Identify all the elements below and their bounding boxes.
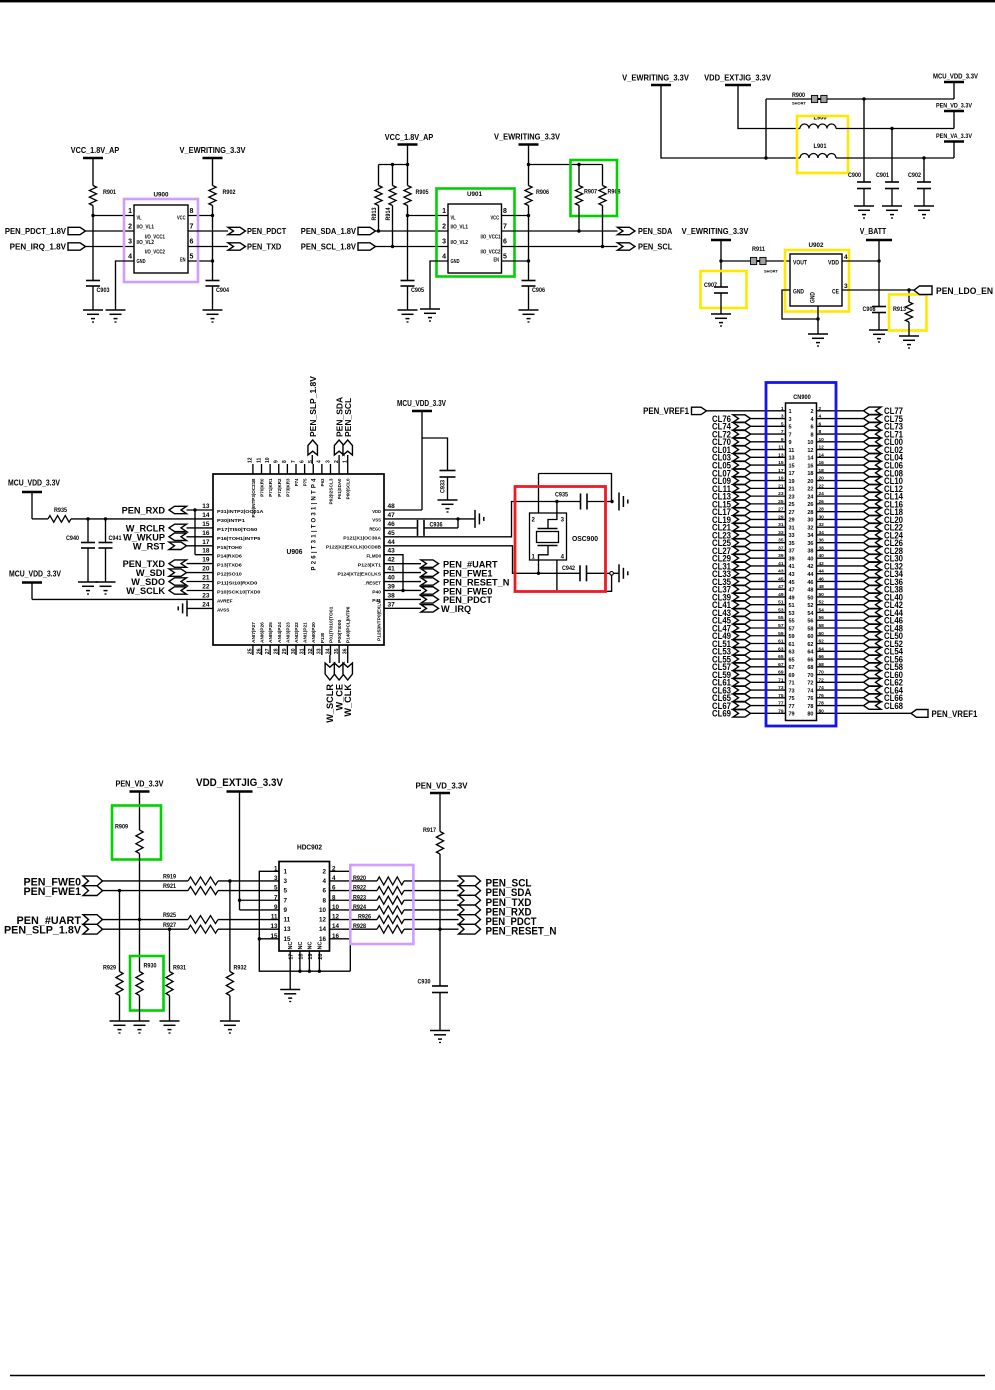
svg-text:38: 38 [388, 592, 396, 599]
svg-text:49: 49 [778, 592, 784, 598]
pin 13 [778, 452, 794, 461]
port CL55 [712, 654, 751, 664]
wire [404, 880, 459, 882]
svg-text:MCU_VDD_3.3V: MCU_VDD_3.3V [933, 74, 978, 81]
svg-text:R928: R928 [353, 923, 367, 930]
svg-text:51: 51 [789, 603, 795, 609]
junction [391, 245, 394, 248]
svg-text:44: 44 [819, 569, 825, 575]
svg-text:4: 4 [128, 254, 132, 261]
junction [527, 214, 530, 217]
svg-text:54: 54 [819, 607, 825, 613]
svg-text:R909: R909 [115, 824, 129, 831]
wire [908, 322, 910, 336]
svg-text:C900: C900 [848, 172, 862, 179]
capacitor C908 [863, 306, 887, 313]
svg-text:PEN_IRQ_1.8V: PEN_IRQ_1.8V [10, 242, 67, 252]
svg-text:79: 79 [789, 712, 795, 718]
wire [103, 890, 189, 892]
resistor R907 [575, 186, 597, 206]
wire [240, 792, 280, 901]
port PEN_SCL_1.8V [301, 242, 376, 252]
port CL34 [864, 569, 904, 579]
svg-text:2: 2 [819, 406, 822, 412]
wire [384, 572, 421, 574]
port PEN_RESET_N [421, 577, 510, 587]
port CL27 [712, 546, 751, 556]
junction [577, 163, 580, 166]
svg-text:55: 55 [778, 615, 784, 621]
highlight box R909 [112, 806, 161, 860]
pin 31 [778, 522, 794, 531]
port CL01 [712, 445, 751, 455]
pin 79 [778, 708, 794, 717]
wire [407, 286, 409, 310]
pin 77 [778, 701, 794, 710]
svg-text:20: 20 [819, 476, 825, 482]
port CL22 [864, 523, 904, 533]
ground [854, 206, 874, 218]
svg-text:R927: R927 [163, 922, 177, 929]
svg-text:39: 39 [778, 553, 784, 559]
svg-text:MCU_VDD_3.3V: MCU_VDD_3.3V [8, 479, 61, 488]
wire [817, 674, 864, 676]
port CL68 [864, 701, 904, 711]
svg-text:35: 35 [334, 648, 340, 654]
pin 57 [778, 623, 794, 632]
power PEN_VA_3.3V [936, 133, 973, 158]
svg-text:9: 9 [781, 437, 784, 443]
wire [384, 411, 422, 510]
capacitor C905 [401, 281, 425, 295]
svg-text:MCU_VDD_3.3V: MCU_VDD_3.3V [9, 570, 62, 579]
pin 24 [807, 491, 824, 500]
pin 11 [778, 445, 794, 454]
svg-text:70: 70 [807, 673, 813, 679]
power V_EWRITING_3.3V [682, 226, 749, 240]
svg-text:51: 51 [778, 600, 784, 606]
wire [439, 993, 441, 1031]
svg-text:R907: R907 [584, 189, 598, 196]
pin 41 [778, 561, 794, 570]
resistor R913 [371, 186, 382, 221]
wire [347, 655, 349, 663]
pin 54 [807, 607, 824, 616]
svg-text:35: 35 [789, 541, 795, 547]
open junction [610, 572, 614, 576]
svg-text:30: 30 [819, 514, 825, 520]
port CL31 [712, 561, 751, 571]
wire [817, 573, 864, 575]
capacitor C904 [206, 281, 230, 295]
wire [119, 891, 121, 972]
svg-text:28: 28 [807, 510, 813, 516]
wire [891, 129, 893, 183]
pin 48 [807, 584, 824, 593]
svg-text:VOUT: VOUT [793, 261, 807, 267]
svg-text:PEN_VA_3.3V: PEN_VA_3.3V [936, 133, 973, 140]
svg-text:31: 31 [789, 525, 795, 531]
svg-text:4: 4 [317, 460, 323, 463]
wire [188, 206, 213, 216]
wire [817, 518, 864, 520]
pin 32 [807, 522, 824, 531]
svg-text:65: 65 [789, 657, 795, 663]
port CL52 [864, 639, 904, 649]
port CL05 [712, 461, 751, 471]
svg-text:73: 73 [789, 688, 795, 694]
svg-text:R911: R911 [752, 246, 766, 253]
port CL46 [864, 616, 904, 626]
wire [308, 951, 310, 971]
port W_IRQ [421, 604, 471, 614]
svg-text:I/O_VCC2: I/O_VCC2 [145, 249, 165, 255]
svg-text:15: 15 [202, 521, 210, 528]
resistor R926 [358, 914, 404, 924]
svg-text:3: 3 [128, 239, 132, 246]
port CL15 [712, 499, 751, 509]
svg-text:40: 40 [819, 553, 825, 559]
svg-text:36: 36 [819, 538, 825, 544]
IC HDC902 [270, 843, 339, 952]
junction [601, 245, 604, 248]
svg-text:15: 15 [789, 463, 795, 469]
port W_RCLR [126, 523, 187, 533]
highlight box L900 L901 [797, 116, 848, 173]
svg-text:67: 67 [789, 665, 795, 671]
pin 17 [778, 468, 794, 477]
port W_SCLR [325, 663, 335, 723]
port CL17 [712, 507, 751, 517]
svg-text:5: 5 [284, 888, 288, 895]
wire [384, 518, 475, 520]
wire [751, 441, 786, 443]
svg-text:10: 10 [265, 457, 271, 463]
svg-text:25: 25 [778, 499, 784, 505]
port W_CLK [343, 663, 353, 717]
power PEN_VD_3.3V [416, 782, 469, 794]
wire [103, 880, 189, 882]
svg-text:P12|SO10: P12|SO10 [217, 572, 242, 577]
junction [118, 889, 121, 892]
junction [86, 517, 107, 520]
wire [87, 519, 89, 543]
wire [407, 216, 409, 281]
page top border [0, 0, 995, 2]
wire [502, 206, 529, 216]
port CL04 [864, 453, 904, 463]
inductor L901 [800, 143, 836, 158]
junction [193, 508, 196, 511]
svg-text:EN: EN [180, 258, 186, 264]
svg-text:P62|I2SCL3: P62|I2SCL3 [328, 478, 333, 504]
pin 66 [807, 654, 824, 663]
pin 61 [778, 639, 794, 648]
junction [555, 500, 558, 503]
port PEN_SCL [618, 242, 673, 252]
svg-text:R908: R908 [608, 189, 622, 196]
power VDD_EXTJIG_3.3V [196, 777, 284, 792]
highlight box R930 [130, 956, 164, 1011]
svg-text:72: 72 [807, 681, 813, 687]
pin 22 [807, 483, 824, 492]
svg-text:PEN_PDCT_1.8V: PEN_PDCT_1.8V [5, 226, 66, 236]
resistor R919 [163, 874, 218, 885]
wire [842, 240, 879, 261]
pin 73 [778, 685, 794, 694]
pin 68 [807, 662, 824, 671]
svg-text:PEN_RESET_N: PEN_RESET_N [486, 926, 557, 938]
wire [289, 971, 291, 989]
junction [456, 517, 459, 520]
svg-text:26: 26 [819, 499, 825, 505]
svg-text:7: 7 [274, 894, 278, 901]
svg-text:C935: C935 [555, 492, 569, 499]
ground [130, 1021, 150, 1033]
svg-text:VCC_1.8V_AP: VCC_1.8V_AP [385, 132, 434, 142]
svg-text:29: 29 [789, 518, 795, 524]
svg-text:SHORT: SHORT [792, 102, 807, 106]
port CL45 [712, 616, 751, 626]
wire [86, 246, 135, 248]
port PEN_#UART [17, 915, 103, 927]
wire [751, 573, 786, 575]
svg-text:8: 8 [190, 208, 194, 215]
resistor R929 [103, 965, 123, 996]
wire [379, 145, 408, 186]
junction [438, 928, 441, 931]
wire [817, 495, 864, 497]
svg-text:56: 56 [807, 619, 813, 625]
connector CN900 highlight box [766, 383, 836, 727]
wire [311, 455, 313, 464]
port PEN_FWE1 [421, 568, 493, 578]
capacitor C900 [848, 172, 871, 189]
junction [168, 928, 171, 931]
svg-text:VDD: VDD [828, 261, 840, 267]
svg-text:P10|SCK10|TXD0: P10|SCK10|TXD0 [217, 589, 261, 594]
port PEN_RXD [122, 506, 187, 516]
svg-text:21: 21 [202, 575, 210, 582]
port CL19 [712, 515, 751, 525]
port CL12 [864, 484, 904, 494]
wire [751, 596, 786, 598]
pin 38 [807, 545, 824, 554]
svg-text:33: 33 [317, 648, 323, 654]
power MCU_VDD_3.3V [933, 74, 978, 100]
svg-text:42: 42 [388, 557, 396, 564]
wire [169, 996, 171, 1022]
svg-text:CL68: CL68 [884, 701, 903, 711]
port PEN_LDO_EN [914, 286, 993, 296]
wire [187, 536, 214, 538]
wire [384, 502, 581, 537]
wire [587, 572, 611, 574]
svg-text:37: 37 [388, 601, 396, 608]
wire [587, 501, 612, 503]
wire [817, 433, 864, 435]
wire [384, 555, 403, 591]
pin 34 [807, 530, 824, 539]
resistor R927 [163, 922, 218, 933]
wire [330, 899, 378, 901]
pin 74 [807, 685, 824, 694]
pin 42 [807, 561, 824, 570]
wire [817, 681, 864, 683]
port CL69 [712, 709, 751, 719]
wire [578, 206, 580, 232]
ground [160, 1021, 180, 1033]
svg-text:C908: C908 [863, 306, 877, 313]
ground [280, 990, 300, 1002]
pin 7 [781, 429, 792, 438]
IC U902 regulator [790, 242, 848, 313]
port CL48 [864, 623, 904, 633]
port W_SCLK [126, 586, 186, 596]
wire [376, 230, 449, 232]
svg-text:PEN_VREF1: PEN_VREF1 [643, 406, 689, 416]
power V_EWRITING_3.3V [622, 73, 689, 86]
ground [420, 309, 440, 321]
wire [538, 474, 540, 514]
junction [138, 918, 141, 921]
svg-text:R902: R902 [223, 189, 237, 196]
port CL35 [712, 577, 751, 587]
svg-text:P40: P40 [372, 589, 381, 594]
svg-text:52: 52 [819, 600, 825, 606]
svg-text:U902: U902 [809, 242, 824, 249]
svg-text:C933: C933 [440, 479, 447, 493]
svg-text:R926: R926 [358, 914, 372, 921]
wire [817, 456, 864, 458]
svg-text:8: 8 [819, 429, 822, 435]
wire [720, 293, 722, 314]
ground [110, 1021, 130, 1033]
wire [738, 85, 800, 129]
wire [817, 611, 864, 613]
wire [384, 527, 418, 529]
svg-text:C930: C930 [418, 979, 432, 986]
pin 56 [807, 615, 824, 624]
wire [751, 611, 786, 613]
capacitor C930 [418, 979, 449, 993]
resistor R925 [163, 912, 218, 923]
svg-text:VL: VL [137, 216, 142, 222]
svg-text:PEN_RXD: PEN_RXD [122, 506, 166, 516]
svg-text:GND: GND [811, 291, 817, 303]
svg-text:P130: P130 [320, 632, 325, 643]
svg-text:1: 1 [781, 406, 784, 412]
svg-text:7: 7 [284, 897, 288, 904]
port CL09 [712, 476, 751, 486]
svg-text:ANI3|P23: ANI3|P23 [285, 622, 290, 643]
svg-text:39: 39 [789, 556, 795, 562]
svg-text:6: 6 [819, 421, 822, 427]
pin 46 [807, 576, 824, 585]
wire [103, 928, 189, 930]
svg-text:62: 62 [807, 642, 813, 648]
svg-text:3: 3 [325, 460, 331, 463]
port CL50 [864, 631, 904, 641]
junction [401, 589, 404, 592]
port CL29 [712, 554, 751, 564]
svg-text:4: 4 [442, 254, 446, 261]
svg-text:22: 22 [807, 487, 813, 493]
capacitor C942 [562, 565, 587, 581]
svg-text:I/O_VL1: I/O_VL1 [137, 225, 155, 231]
svg-text:24: 24 [202, 601, 210, 608]
svg-text:C902: C902 [908, 172, 922, 179]
svg-text:27: 27 [778, 507, 784, 513]
port CL76 [712, 414, 751, 424]
port CL49 [712, 631, 751, 641]
svg-text:61: 61 [789, 642, 795, 648]
wire [817, 658, 864, 660]
wire [218, 880, 279, 882]
port CL77 [864, 406, 904, 416]
wire [187, 572, 214, 574]
svg-text:5: 5 [781, 421, 784, 427]
svg-text:R931: R931 [173, 965, 187, 972]
junction [527, 163, 530, 166]
wire [817, 635, 864, 637]
svg-text:23: 23 [789, 494, 795, 500]
svg-text:34: 34 [819, 530, 825, 536]
pin 26 [807, 499, 824, 508]
resistor R914 [385, 186, 396, 221]
ground [438, 500, 458, 512]
pin 28 [807, 507, 824, 516]
junction [238, 899, 241, 902]
pin 23 [778, 491, 794, 500]
highlight box U900 [124, 199, 198, 282]
wire [836, 128, 954, 130]
wire [439, 854, 441, 986]
svg-text:71: 71 [778, 677, 784, 683]
svg-text:26: 26 [256, 648, 262, 654]
wire [240, 900, 280, 910]
wire [661, 85, 800, 158]
wire [817, 425, 864, 427]
pin 37 [778, 545, 794, 554]
svg-text:69: 69 [778, 670, 784, 676]
svg-text:11: 11 [778, 445, 783, 451]
svg-text:CN900: CN900 [793, 395, 811, 401]
port CL21 [712, 523, 751, 533]
svg-text:P15|TOH0: P15|TOH0 [217, 545, 242, 550]
svg-text:18: 18 [819, 468, 825, 474]
svg-text:18: 18 [202, 548, 210, 555]
svg-text:C907: C907 [704, 282, 718, 289]
port CL47 [712, 623, 751, 633]
svg-text:30: 30 [807, 518, 813, 524]
wire [424, 519, 458, 528]
junction [258, 937, 261, 940]
svg-text:R913: R913 [893, 306, 907, 313]
ground [398, 310, 418, 322]
wire [502, 216, 529, 281]
wire [817, 650, 864, 652]
svg-text:54: 54 [807, 611, 814, 617]
wire [707, 410, 786, 412]
pin 60 [807, 631, 824, 640]
ground [96, 582, 116, 594]
port CL26 [864, 538, 904, 548]
port PEN_VREF1 [911, 709, 977, 719]
svg-text:R925: R925 [163, 912, 177, 919]
svg-text:I/O_VCC2: I/O_VCC2 [481, 249, 501, 255]
port CL73 [864, 422, 904, 432]
